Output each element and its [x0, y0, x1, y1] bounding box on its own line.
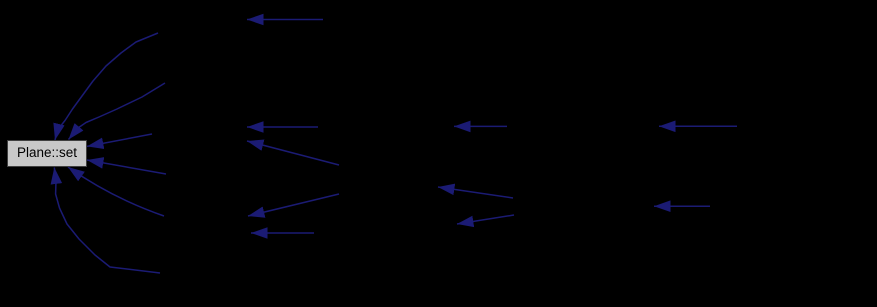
wire edge E1 curve top-left into node: [55, 33, 158, 140]
wire edge E3 into node right upper: [87, 134, 152, 146]
wire edge G1 horizontal: [454, 125, 507, 127]
svg-text:Plane::set: Plane::set: [17, 145, 77, 160]
wire edge G2 diagonal: [438, 187, 513, 198]
wire edge G4 horizontal: [654, 205, 710, 207]
wire edge G3 diagonal: [457, 215, 514, 224]
wire edge F4 diagonal: [248, 194, 339, 216]
node Plane::set: [8, 141, 87, 167]
wire edge E6 curve bottom-left into node: [54, 168, 160, 274]
wire edge F5 horizontal lower: [251, 232, 314, 234]
wire edge E2 into node top: [69, 83, 166, 140]
wire edge F1 horizontal top: [247, 19, 323, 21]
wire edge E4 into node right lower: [87, 160, 166, 174]
wire edge F2 horizontal mid: [247, 126, 318, 128]
wire edge E5 into node bottom: [68, 167, 164, 216]
wire edge F3 diagonal: [247, 141, 339, 165]
wire edge H1 horizontal right: [659, 125, 737, 127]
